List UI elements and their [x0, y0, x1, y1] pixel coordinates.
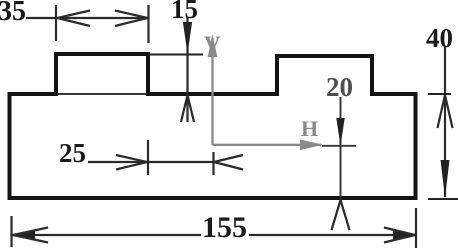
svg-text:H: H — [301, 116, 318, 141]
svg-text:15: 15 — [171, 0, 198, 24]
svg-text:40: 40 — [426, 23, 453, 53]
dimension 155 left extension line — [10, 216, 12, 247]
dimension 35 right arrow — [115, 11, 148, 27]
dimension 25 shaft line — [88, 161, 214, 163]
dimension 15 down arrow — [183, 22, 192, 54]
dimension 25 right extension line — [212, 152, 214, 175]
dimension 15 tab-top extension line — [148, 54, 203, 56]
svg-text:V: V — [204, 32, 221, 57]
dimension 155 right arrow — [393, 231, 416, 239]
body outline (stepped block profile) — [10, 54, 416, 198]
dimension 20 down arrow at H level — [336, 118, 344, 146]
dimension 155 left arrow — [12, 231, 35, 239]
svg-text:25: 25 — [59, 138, 86, 168]
dimension 40 top tick — [428, 93, 451, 95]
dimension 40 down arrow — [441, 160, 450, 198]
dimension 40 line — [444, 47, 446, 197]
dimension 20 up open arrow at bottom edge — [332, 200, 350, 230]
dimension 35 left extension line — [55, 5, 57, 41]
dimension 25 left extension line — [147, 140, 149, 175]
dimension 15 line — [186, 18, 188, 122]
H axis arrowhead — [300, 140, 323, 151]
dimension 25 right-pointing arrow — [116, 155, 147, 170]
V axis arrowhead — [208, 34, 218, 57]
dimension 20 line — [340, 97, 342, 199]
dimension 155 right extension line — [415, 208, 417, 248]
dimension 35 right extension line — [147, 5, 149, 43]
dimension 35 left arrow — [58, 11, 91, 27]
dimension 155 line left segment — [12, 234, 201, 236]
dimension 35 leader+line — [26, 17, 149, 19]
svg-text:35: 35 — [0, 0, 26, 27]
dimension 15 up open arrow at body top — [181, 95, 194, 122]
dimension 155 line right segment — [249, 234, 415, 236]
dimension 20 extension tick at H level — [322, 145, 356, 147]
H axis line (gray) — [213, 144, 322, 146]
dimension 25 left-pointing arrow — [214, 155, 243, 170]
dimension 40 bottom tick — [428, 198, 458, 200]
dimension 40 up open arrow — [438, 95, 453, 128]
wire: thin seam line under left tab — [57, 93, 147, 95]
svg-text:155: 155 — [202, 211, 247, 244]
V axis line (gray) — [211, 38, 213, 145]
